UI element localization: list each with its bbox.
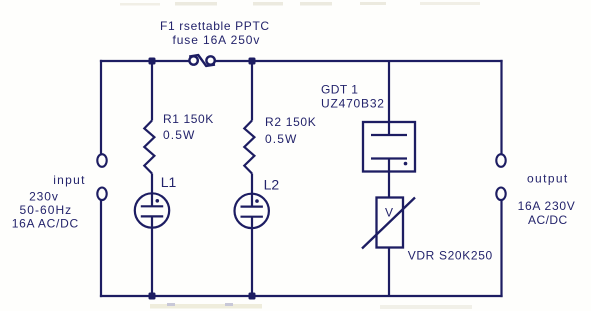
svg-text:L1: L1 <box>161 174 177 190</box>
wire VDR to bottom rail <box>388 248 390 297</box>
wire R2 branch top <box>251 61 253 121</box>
faint cropped text artifact bottom <box>150 303 472 309</box>
svg-text:230v: 230v <box>29 190 59 204</box>
wire right rail upper <box>500 61 502 154</box>
svg-text:fuse 16A 250v: fuse 16A 250v <box>173 33 261 47</box>
resistor R2 <box>244 121 254 174</box>
GDT U1 box <box>363 122 415 172</box>
wire bottom rail <box>101 295 502 297</box>
wire left rail upper <box>100 61 102 154</box>
svg-text:0.5W: 0.5W <box>265 132 297 146</box>
svg-text:AC/DC: AC/DC <box>528 213 568 227</box>
wire R1 branch top <box>151 61 153 121</box>
output terminal lower <box>496 188 505 201</box>
lamp L1 <box>135 193 169 227</box>
wire top rail right of fuse <box>215 60 502 62</box>
lamp L2 <box>235 194 269 228</box>
wire L1 to bottom rail <box>151 216 153 296</box>
svg-text:0.5W: 0.5W <box>163 128 195 142</box>
svg-text:16A 230V: 16A 230V <box>518 199 576 213</box>
wire R1 to L1 <box>151 174 153 207</box>
varistor diagonal <box>362 198 415 249</box>
svg-text:16A AC/DC: 16A AC/DC <box>12 217 79 231</box>
svg-text:UZ470B32: UZ470B32 <box>321 96 385 110</box>
node junction dot bottom L1 <box>149 293 156 300</box>
node junction dot bottom L2 <box>249 293 256 300</box>
wire top rail left of fuse <box>101 60 189 62</box>
output terminal upper <box>496 154 505 167</box>
wire left rail lower <box>100 201 102 297</box>
wire L2 to bottom rail <box>251 217 253 296</box>
svg-text:F1 rsettable PPTC: F1 rsettable PPTC <box>160 19 270 33</box>
faint cropped text artifact top <box>120 2 480 6</box>
node junction dot top R1 <box>149 58 156 65</box>
resistor R1 <box>144 121 154 174</box>
svg-text:R2 150K: R2 150K <box>265 115 316 129</box>
wire R2 to L2 <box>251 174 253 207</box>
input terminal upper <box>97 154 106 167</box>
wire GDT branch from top rail <box>388 61 390 135</box>
svg-text:input: input <box>53 173 86 187</box>
input terminal lower <box>97 188 106 201</box>
wire right rail lower <box>500 201 502 297</box>
svg-text:50-60Hz: 50-60Hz <box>20 203 73 217</box>
svg-text:output: output <box>527 172 569 186</box>
svg-text:R1 150K: R1 150K <box>163 112 214 126</box>
fuse F1 resettable PPTC <box>189 55 215 66</box>
svg-text:GDT 1: GDT 1 <box>321 83 358 97</box>
wire GDT to VDR <box>388 159 390 198</box>
svg-text:V: V <box>385 206 393 220</box>
node junction dot top R2 <box>249 58 256 65</box>
svg-text:VDR S20K250: VDR S20K250 <box>408 248 493 262</box>
svg-text:L2: L2 <box>264 177 280 193</box>
varistor VDR box <box>377 198 404 248</box>
